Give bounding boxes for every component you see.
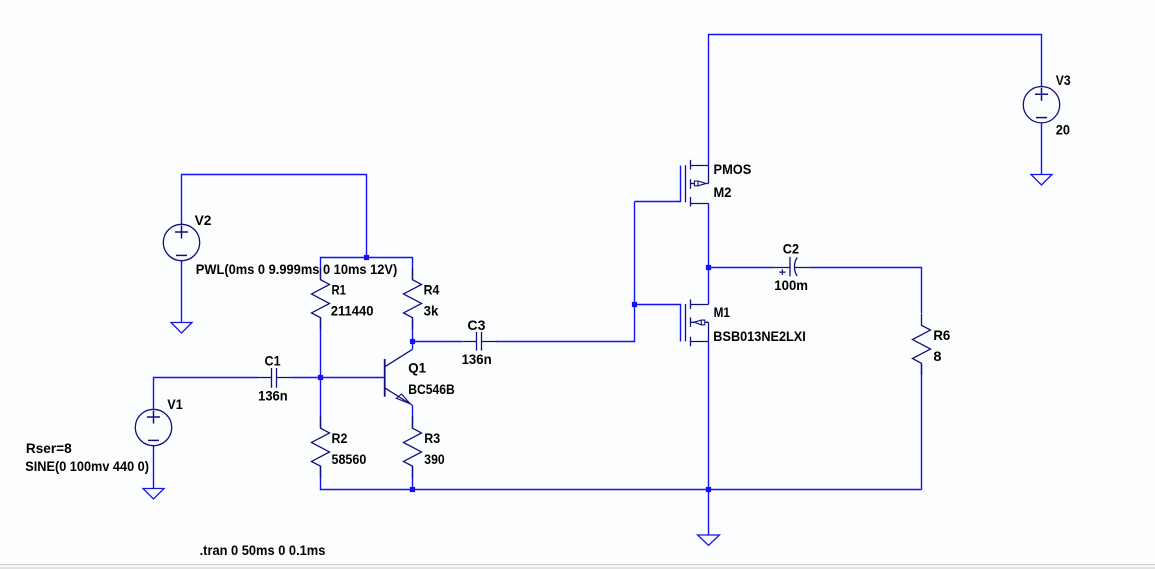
resistor R4 labels xyxy=(424,282,440,319)
svg-text:136n: 136n xyxy=(462,351,492,367)
voltage source V1 labels xyxy=(25,396,183,474)
svg-text:V1: V1 xyxy=(167,396,183,412)
resistor R1 xyxy=(312,268,330,329)
svg-text:SINE(0 100mv 440 0): SINE(0 100mv 440 0) xyxy=(25,458,149,474)
wire bottom rail xyxy=(321,466,922,490)
svg-text:100m: 100m xyxy=(774,277,808,293)
wire C1 to base node xyxy=(292,377,384,379)
svg-text:390: 390 xyxy=(424,451,444,467)
transistor M1 labels xyxy=(713,304,806,344)
wire M2 gate xyxy=(635,166,681,202)
voltage source V2 xyxy=(163,224,199,260)
svg-text:PMOS: PMOS xyxy=(714,161,752,177)
wire R1-R4 top rail xyxy=(321,258,413,280)
svg-text:58560: 58560 xyxy=(332,451,367,467)
capacitor C3 labels xyxy=(462,317,492,367)
wire R1 bottom to R2 top through base node xyxy=(320,318,322,429)
resistor R4 xyxy=(404,268,422,329)
wire collector node to C3 xyxy=(413,341,463,343)
svg-text:C1: C1 xyxy=(265,352,281,368)
wire M1 source to bottom rail xyxy=(708,342,710,490)
node junction bottom ground xyxy=(706,487,711,492)
svg-text:R3: R3 xyxy=(424,430,440,446)
node junction C2 output xyxy=(706,265,711,270)
svg-text:136n: 136n xyxy=(258,387,288,403)
svg-text:C2: C2 xyxy=(783,241,799,257)
wire V3 to ground xyxy=(1041,123,1043,175)
node junction Q1 base xyxy=(318,375,323,380)
capacitor C2 polarized xyxy=(774,257,810,277)
resistor R1 labels xyxy=(331,282,374,319)
resistor R3 xyxy=(404,417,422,478)
transistor M2 labels xyxy=(714,161,752,200)
node junction R3 bottom xyxy=(410,487,415,492)
resistor R6 xyxy=(913,314,931,375)
transistor Q1 xyxy=(385,349,413,405)
wire C3 to gate column xyxy=(496,202,634,342)
wire V1 to ground xyxy=(153,446,155,489)
svg-text:V3: V3 xyxy=(1056,72,1071,88)
capacitor C2 labels xyxy=(774,241,808,293)
capacitor C1 xyxy=(258,368,293,388)
svg-text:.tran 0 50ms 0 0.1ms: .tran 0 50ms 0 0.1ms xyxy=(200,542,326,558)
svg-text:20: 20 xyxy=(1056,122,1070,138)
resistor R2 labels xyxy=(332,430,367,467)
wire V1 to C1 xyxy=(154,378,258,410)
resistor R2 xyxy=(312,417,330,478)
node junction MOSFET gates xyxy=(632,302,637,307)
wire M2 drain top rail to V3 xyxy=(709,35,1042,166)
svg-text:211440: 211440 xyxy=(331,302,374,318)
ground under V3 xyxy=(1031,175,1052,185)
spice directive .tran xyxy=(200,542,326,558)
svg-text:BSB013NE2LXI: BSB013NE2LXI xyxy=(713,328,806,344)
status bar strip xyxy=(0,564,1155,569)
svg-text:R6: R6 xyxy=(933,327,950,343)
svg-text:R1: R1 xyxy=(332,282,347,298)
svg-text:Q1: Q1 xyxy=(408,359,426,375)
wire C2 node to C2 xyxy=(709,267,775,269)
transistor M2 PMOS xyxy=(686,160,709,207)
voltage source V1 xyxy=(135,409,171,445)
capacitor C3 xyxy=(463,332,498,351)
wire V2 to ground xyxy=(181,261,183,323)
wire Q1 emitter to R3 xyxy=(412,405,414,428)
ground bottom center xyxy=(698,535,720,545)
svg-text:R4: R4 xyxy=(424,282,440,298)
node junction R1 top rail xyxy=(364,255,369,260)
transistor Q1 labels xyxy=(408,359,455,397)
svg-text:V2: V2 xyxy=(195,212,212,228)
svg-text:8: 8 xyxy=(933,348,941,364)
wire R4 bottom to collector node xyxy=(412,318,414,350)
transistor M1 NMOS xyxy=(686,299,709,346)
svg-text:M2: M2 xyxy=(714,184,732,200)
svg-text:C3: C3 xyxy=(467,317,485,333)
svg-text:PWL(0ms 0 9.999ms 0 10ms 12V): PWL(0ms 0 9.999ms 0 10ms 12V) xyxy=(196,261,397,277)
svg-text:M1: M1 xyxy=(714,304,730,320)
svg-text:Rser=8: Rser=8 xyxy=(26,440,72,456)
resistor R3 labels xyxy=(424,430,444,467)
wire C2 to R6 xyxy=(811,268,922,314)
ground under V1 xyxy=(143,489,164,499)
wire M2 source to M1 drain xyxy=(708,204,710,305)
svg-text:R2: R2 xyxy=(332,430,348,446)
voltage source V2 labels xyxy=(195,212,398,277)
wire V2 top to R1/R4 node xyxy=(182,175,367,258)
node junction Q1 collector xyxy=(410,339,415,344)
wire bottom ground stem xyxy=(708,490,710,536)
ground under V2 xyxy=(171,323,192,333)
capacitor C1 labels xyxy=(258,352,288,403)
wire R6 to bottom rail xyxy=(921,364,923,490)
wire R3 bottom to bottom rail xyxy=(412,466,414,489)
wire M1 gate xyxy=(635,305,681,342)
svg-text:3k: 3k xyxy=(424,302,439,318)
voltage source V3 xyxy=(1023,87,1059,123)
resistor R6 labels xyxy=(933,327,950,364)
voltage source V3 labels xyxy=(1056,72,1071,138)
svg-text:BC546B: BC546B xyxy=(408,381,455,397)
